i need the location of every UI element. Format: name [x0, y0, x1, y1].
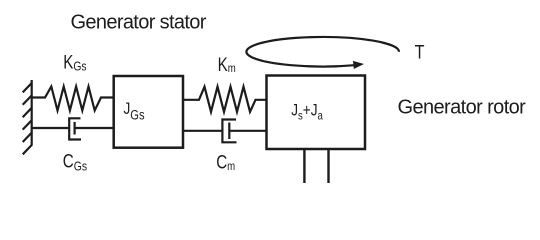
- damper Cm cylinder: [222, 120, 236, 143]
- damper Cm rod: [229, 130, 266, 132]
- svg-text:Js+Ja: Js+Ja: [291, 101, 324, 123]
- label T: [415, 41, 425, 63]
- damper Cm wire: [183, 130, 222, 132]
- svg-text:JGs: JGs: [124, 100, 145, 123]
- damper CGs piston: [73, 122, 75, 135]
- damper CGs rod: [75, 127, 114, 129]
- label CGs: [63, 150, 87, 174]
- damper CGs cylinder: [69, 118, 81, 139]
- spring Km: [183, 87, 267, 112]
- svg-text:CGs: CGs: [63, 150, 87, 174]
- label JGs: [124, 100, 145, 123]
- fixed wall: [23, 80, 32, 154]
- spring KGs: [32, 87, 114, 111]
- torque arrowhead: [353, 61, 364, 69]
- label Cm: [216, 151, 235, 173]
- shaft leg right: [327, 149, 329, 183]
- label KGs: [63, 51, 87, 74]
- damper Cm piston: [228, 123, 230, 140]
- label Km: [218, 53, 236, 75]
- svg-text:Cm: Cm: [216, 151, 235, 173]
- svg-text:Km: Km: [218, 53, 236, 75]
- svg-text:Generator rotor: Generator rotor: [398, 97, 527, 119]
- svg-text:Generator stator: Generator stator: [71, 12, 207, 34]
- svg-text:KGs: KGs: [63, 51, 87, 74]
- label Js+Ja: [291, 101, 324, 123]
- torque arrow ellipse: [246, 37, 399, 67]
- mass JGs box: [114, 76, 183, 148]
- shaft leg left: [303, 149, 305, 183]
- damper CGs wire: [32, 127, 69, 129]
- mass Js+Ja box: [267, 76, 366, 150]
- svg-text:T: T: [415, 41, 425, 63]
